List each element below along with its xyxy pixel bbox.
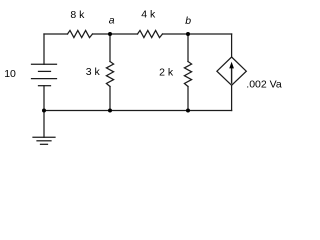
wire bottom rail (44, 110, 232, 112)
wire node b to right branch (188, 33, 232, 35)
wire 8k to node a (93, 33, 111, 35)
wire bottom junction to ground (43, 111, 45, 138)
node a junction dot (108, 32, 112, 36)
junction dot bottom 3k (108, 109, 112, 113)
voltage source 10 V battery long plate 3 (32, 78, 57, 80)
junction dot bottom left (42, 109, 46, 113)
svg-text:.002 Va: .002 Va (246, 79, 282, 91)
wire 3k to bottom rail (109, 87, 111, 111)
wire current source to bottom rail (231, 85, 233, 110)
dependent current source .002 Va diamond (217, 57, 246, 85)
svg-text:4 k: 4 k (141, 9, 156, 21)
resistor 3 k (106, 62, 113, 87)
voltage source 10 V battery short plate 4 (39, 85, 51, 87)
wire 4k to node b (163, 33, 189, 35)
svg-text:8 k: 8 k (70, 9, 85, 21)
voltage source 10 V battery long plate 1 (32, 63, 57, 65)
wire top rail left segment (44, 33, 68, 35)
wire node b to 2k (187, 34, 189, 62)
svg-text:10: 10 (4, 68, 16, 80)
wire right branch top (231, 34, 233, 57)
ground bar 2 (37, 140, 51, 142)
ground bar 3 (41, 143, 48, 145)
resistor 4 k (138, 30, 163, 37)
svg-text:a: a (109, 15, 115, 27)
wire node a to 3k (109, 34, 111, 62)
wire node a to 4k (110, 33, 138, 35)
wire left branch to battery top (43, 34, 45, 64)
svg-text:3 k: 3 k (86, 66, 101, 78)
wire 2k to bottom rail (187, 87, 189, 111)
resistor 8 k (68, 30, 93, 37)
node b junction dot (186, 32, 190, 36)
wire battery bottom to bottom rail (43, 86, 45, 111)
current source arrow shaft (231, 67, 233, 84)
resistor 2 k (184, 62, 191, 87)
current source arrow head (229, 62, 234, 69)
ground bar 1 (33, 136, 55, 138)
junction dot bottom 2k (186, 109, 190, 113)
voltage source 10 V battery short plate 2 (39, 70, 51, 72)
svg-text:b: b (185, 15, 191, 27)
svg-text:2 k: 2 k (159, 67, 174, 79)
